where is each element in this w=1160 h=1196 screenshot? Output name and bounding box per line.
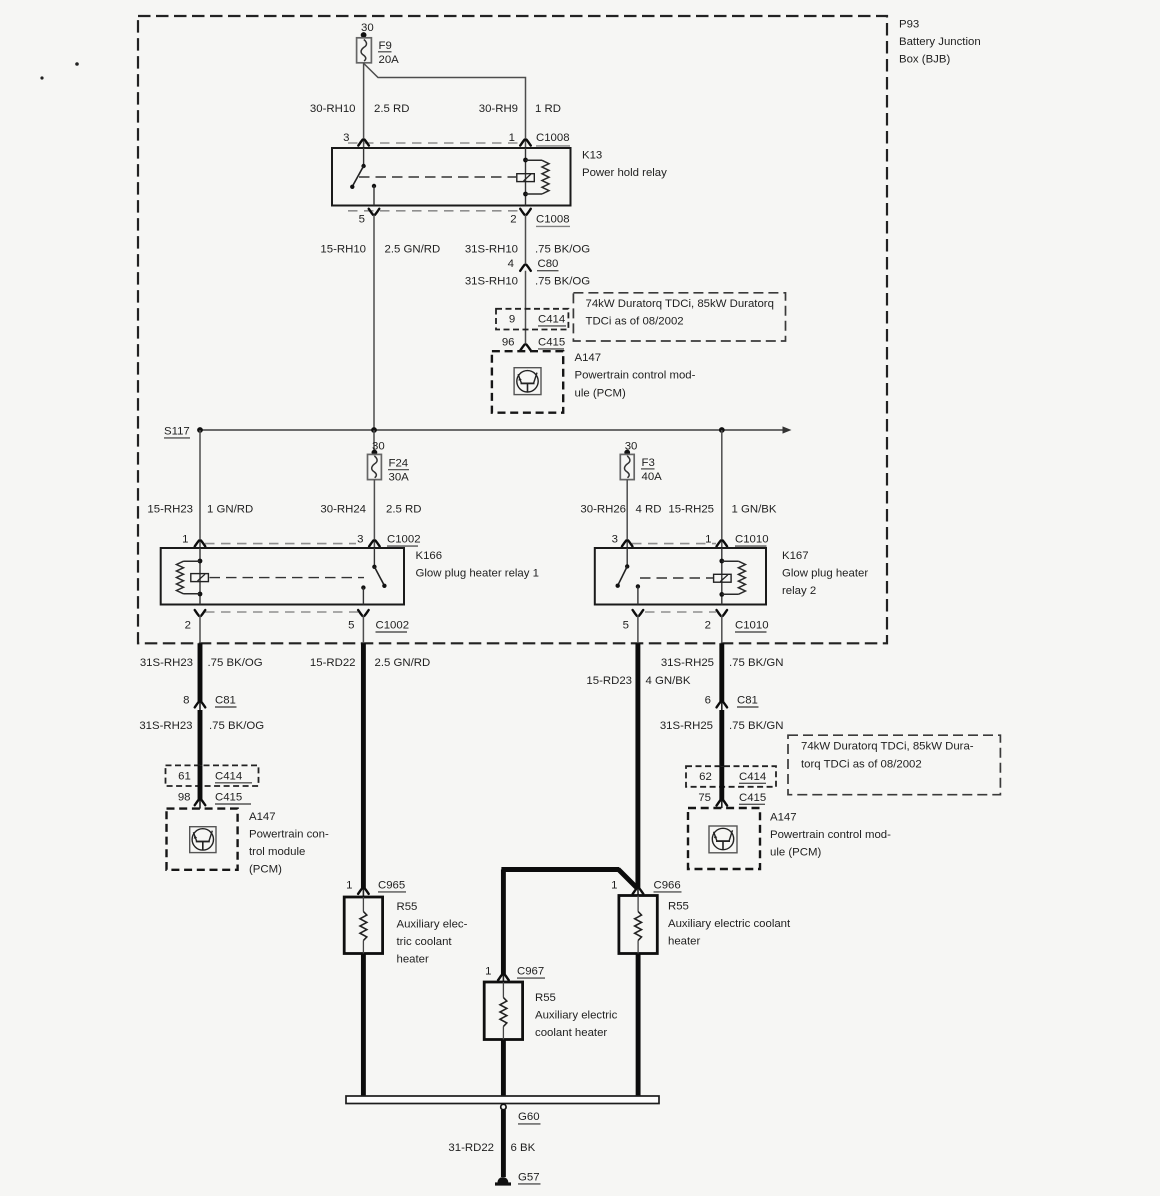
K167 coil element box	[714, 574, 732, 582]
module A147 PCM box (right, dashed)	[688, 808, 760, 869]
Battery Junction Box P93 boundary (dashed)	[138, 16, 887, 643]
pin 3 connector symbol (K166)	[369, 541, 380, 547]
connector C1010 bottom label	[735, 620, 769, 632]
connector C965 label	[378, 879, 406, 892]
K166 coil element box	[191, 574, 209, 582]
svg-text:.75 BK/GN: .75 BK/GN	[729, 657, 783, 669]
svg-text:(PCM): (PCM)	[249, 864, 282, 876]
svg-text:Powertrain control mod-: Powertrain control mod-	[770, 829, 891, 841]
wire C966 to ground bar	[636, 954, 641, 1097]
svg-text:1: 1	[485, 966, 491, 978]
svg-text:C1002: C1002	[387, 534, 421, 546]
pin 9 label (C414)	[509, 314, 515, 326]
pin 6 label (C81 right)	[705, 695, 711, 707]
connector C414 box left (pin 61)	[166, 765, 259, 786]
svg-text:.75 BK/OG: .75 BK/OG	[208, 657, 263, 669]
connector C81 symbol (left)	[195, 702, 206, 708]
connector C967 label	[517, 966, 545, 979]
svg-text:1: 1	[705, 534, 711, 546]
pin 1 connector symbol (K13)	[520, 140, 531, 146]
node 30 terminal dot (F24)	[372, 450, 378, 456]
svg-text:6 BK: 6 BK	[511, 1142, 536, 1154]
svg-text:30-RH9: 30-RH9	[479, 103, 518, 115]
svg-text:C1010: C1010	[735, 620, 769, 632]
svg-text:C967: C967	[517, 966, 544, 978]
svg-text:2.5 GN/RD: 2.5 GN/RD	[375, 657, 431, 669]
wire F9 to K13 pin3 (30-RH10 2.5 RD)	[363, 63, 365, 148]
relay K167 name label	[782, 550, 868, 597]
svg-text:5: 5	[348, 620, 354, 632]
svg-text:Glow plug heater relay 1: Glow plug heater relay 1	[416, 567, 539, 579]
svg-text:C414: C414	[538, 314, 565, 326]
svg-text:2.5 RD: 2.5 RD	[386, 503, 421, 515]
svg-text:5: 5	[359, 214, 365, 226]
node 30 label (F3)	[625, 441, 638, 453]
ground G60 label	[518, 1111, 541, 1124]
fuse F9	[357, 38, 372, 63]
svg-text:A147: A147	[770, 812, 797, 824]
connector C1010 bottom dashed line	[645, 611, 716, 613]
wire label 15-RH25 1 GN/BK	[668, 503, 776, 515]
wire 31S-RH23 .75 BK/OG (K166 pin2 to C81)	[198, 643, 203, 710]
connector C414 label	[538, 314, 566, 326]
wire label 31S-RH25 .75 BK/GN	[661, 657, 784, 669]
svg-text:TDCi as of 08/2002: TDCi as of 08/2002	[586, 316, 684, 328]
wire K167 pin2 stub	[721, 615, 723, 643]
K167 coil winding zigzag	[722, 561, 746, 594]
svg-text:Powertrain control mod-: Powertrain control mod-	[575, 370, 696, 382]
wire label 31S-RH23 .75 BK/OG	[140, 657, 263, 669]
pin 3 label (K13)	[343, 132, 349, 144]
svg-text:5: 5	[623, 620, 629, 632]
wire through C414 right	[719, 766, 724, 808]
ground G60 terminal circle	[501, 1104, 506, 1109]
svg-text:3: 3	[343, 132, 349, 144]
svg-text:ule (PCM): ule (PCM)	[575, 387, 626, 399]
svg-text:.75 BK/OG: .75 BK/OG	[209, 720, 264, 732]
K13 coil wire pin1-pin2	[525, 148, 527, 206]
pin 1 label (C965)	[346, 879, 352, 891]
svg-text:relay 2: relay 2	[782, 585, 816, 597]
svg-text:15-RH23: 15-RH23	[147, 503, 193, 515]
label A147 PCM (right)	[770, 812, 891, 859]
pin 5 connector symbol (K13)	[369, 209, 380, 215]
svg-text:1: 1	[509, 132, 515, 144]
svg-text:K166: K166	[416, 550, 443, 562]
heater R55 element (C965)	[360, 897, 367, 954]
pin 2 connector symbol (K13)	[520, 209, 531, 215]
connector C81 label (right)	[737, 695, 759, 707]
svg-text:75: 75	[698, 792, 711, 804]
svg-text:K167: K167	[782, 550, 809, 562]
wire label 30-RH24 2.5 RD	[320, 503, 421, 515]
svg-text:.75 BK/OG: .75 BK/OG	[535, 243, 590, 255]
K167 switch pin3 stub	[626, 548, 628, 566]
relay K13 box	[332, 148, 571, 206]
svg-text:torq TDCi as of 08/2002: torq TDCi as of 08/2002	[801, 758, 922, 770]
module A147 PCM box (left, dashed)	[167, 809, 238, 870]
wire C80 to C414 (31S-RH10)	[525, 271, 527, 344]
splice S117 bus wire	[200, 429, 785, 431]
connector C81 label (left)	[215, 695, 237, 707]
wire label 15-RH10 2.5 GN/RD	[320, 243, 440, 255]
K13 coil winding zigzag	[526, 160, 550, 194]
svg-text:R55: R55	[397, 901, 418, 913]
svg-text:40A: 40A	[642, 471, 663, 483]
K166 coil winding zigzag	[177, 561, 201, 594]
wire label 31S-RH10 .75 BK/OG upper	[465, 243, 590, 255]
pin 1 label (K166)	[182, 534, 188, 546]
svg-text:1: 1	[346, 879, 352, 891]
fuse F3 value label 40A	[641, 457, 662, 483]
svg-text:31S-RH10: 31S-RH10	[465, 275, 518, 287]
connector C80 symbol	[520, 265, 531, 271]
svg-text:31S-RH25: 31S-RH25	[661, 657, 714, 669]
svg-text:31-RD22: 31-RD22	[448, 1142, 494, 1154]
wire 31S-RH25 .75 BK/GN (K167 pin2 to C81)	[719, 643, 724, 710]
wire K166 pin5 stub	[362, 615, 364, 643]
connector C415 symbol (left)	[195, 799, 206, 805]
relay K166 box	[161, 548, 404, 605]
connector C415 symbol (right)	[717, 800, 728, 806]
wire K167 pin5 stub	[637, 615, 639, 643]
svg-text:9: 9	[509, 314, 515, 326]
K13 coil bottom junction dot	[523, 192, 528, 197]
K166 pin5 internal stub	[362, 588, 364, 605]
node 30 label (F9 feed)	[361, 22, 374, 34]
svg-text:C80: C80	[538, 258, 559, 270]
svg-text:30-RH26: 30-RH26	[580, 503, 626, 515]
connector C415 symbol	[520, 345, 531, 351]
pin 75 label (C415 right)	[698, 792, 711, 804]
svg-text:trol module: trol module	[249, 846, 305, 858]
fuse F24 value label 30A	[388, 458, 409, 484]
connector C414 box right (pin 62)	[686, 766, 776, 787]
pin 2 label (K166)	[185, 620, 191, 632]
wire label 31S-RH10 .75 BK/OG lower	[465, 275, 590, 287]
connector C1002 top label	[387, 534, 421, 547]
svg-text:3: 3	[357, 534, 363, 546]
pin 2 label (K167)	[705, 620, 711, 632]
K167 coil bottom junction dot	[719, 592, 724, 597]
svg-text:15-RD22: 15-RD22	[310, 657, 356, 669]
svg-text:4: 4	[508, 258, 514, 270]
wire 15-RD22 2.5 GN/RD (K166 pin5 to C965)	[361, 643, 366, 897]
wire through C414 left	[198, 765, 203, 808]
connector C965 symbol	[358, 888, 369, 894]
connector C414 label (right)	[739, 771, 766, 783]
connector C1010 top label	[735, 534, 769, 547]
label A147 PCM (left)	[249, 811, 329, 876]
note 74kW Duratorq box (top)	[573, 293, 785, 341]
svg-text:31S-RH10: 31S-RH10	[465, 243, 518, 255]
svg-text:coolant heater: coolant heater	[535, 1027, 607, 1039]
note text 74kW Duratorq (bottom)	[801, 740, 974, 770]
wire branch F9 to K13 pin1 (30-RH9 1 RD)	[364, 64, 526, 149]
svg-text:Auxiliary electric: Auxiliary electric	[535, 1010, 618, 1022]
pin 8 label (C81 left)	[183, 695, 189, 707]
svg-text:R55: R55	[668, 901, 689, 913]
svg-text:C415: C415	[739, 792, 766, 804]
connector C966 symbol	[633, 888, 644, 894]
svg-text:G57: G57	[518, 1171, 540, 1183]
K166 coil top junction dot	[198, 559, 203, 564]
connector C1002 top dashed line	[205, 543, 356, 545]
K166 actuation dashed link	[210, 577, 365, 579]
relay K13 name label	[582, 150, 667, 180]
module A147 PCM box (middle, dashed)	[492, 351, 563, 413]
connector C1008 top dashed line	[348, 142, 521, 144]
K167 coil wire pin1-pin2	[721, 548, 723, 605]
svg-text:A147: A147	[575, 352, 602, 364]
wire branch diagonal into C966 pin1	[618, 869, 637, 888]
K13 switch blade	[352, 166, 363, 187]
svg-text:8: 8	[183, 695, 189, 707]
wire label 30-RH10 2.5 RD	[310, 103, 410, 115]
heater R55 element (C967)	[500, 982, 507, 1040]
pin 2 connector symbol (K167)	[717, 610, 728, 616]
wire S117 to K166 pin1 (15-RH23 1 GN/RD)	[199, 430, 201, 548]
svg-text:74kW Duratorq TDCi, 85kW Durat: 74kW Duratorq TDCi, 85kW Duratorq	[586, 298, 774, 310]
svg-text:C1008: C1008	[536, 132, 570, 144]
relay K166 name label	[416, 550, 539, 580]
svg-text:Battery Junction: Battery Junction	[899, 36, 981, 48]
K166 coil wire pin1-pin2	[199, 548, 201, 605]
svg-text:K13: K13	[582, 150, 602, 162]
K167 switch blade end dot	[616, 584, 620, 588]
connector C414 label (left)	[215, 771, 252, 783]
svg-text:1: 1	[611, 879, 617, 891]
connector C1010 top dashed line	[632, 543, 716, 545]
pin 98 label (C415 left)	[178, 792, 191, 804]
connector C967 symbol	[498, 974, 509, 980]
wire label 15-RH23 1 GN/RD	[147, 503, 253, 515]
wire G60 to G57 (31-RD22 6 BK)	[501, 1110, 506, 1177]
svg-text:C415: C415	[215, 792, 242, 804]
pin 1 label (K13)	[509, 132, 515, 144]
connector C415 label (left)	[215, 792, 251, 804]
svg-text:C966: C966	[654, 879, 681, 891]
svg-text:C81: C81	[215, 695, 236, 707]
connector C415 label	[538, 336, 565, 349]
K13 pin5 internal stub	[373, 186, 375, 206]
svg-text:4 GN/BK: 4 GN/BK	[646, 675, 691, 687]
wire label 30-RH26 4 RD	[580, 503, 661, 515]
pin 3 label (K166)	[357, 534, 363, 546]
svg-text:61: 61	[178, 771, 191, 783]
connector C1002 bottom dashed line	[205, 611, 358, 613]
svg-text:C1010: C1010	[735, 534, 769, 546]
heater R55 box (C967)	[484, 982, 522, 1040]
svg-text:96: 96	[502, 336, 515, 348]
pin 1 label (K167)	[705, 534, 711, 546]
connector C415 label (right)	[739, 792, 766, 804]
K13 switch pin3 stub	[363, 148, 365, 166]
pin 3 connector symbol (K167)	[622, 541, 633, 547]
K166 switch blade	[374, 567, 384, 586]
pin 5 connector symbol (K166)	[358, 610, 369, 616]
K13 switch blade end dot	[350, 185, 354, 189]
wire F24 to K166 pin3 (30-RH24 2.5 RD)	[373, 480, 375, 548]
svg-text:Auxiliary electric coolant: Auxiliary electric coolant	[668, 918, 791, 930]
relay K167 box	[595, 548, 766, 605]
heater R55 box (C965)	[344, 897, 382, 954]
pin 5 label (K13)	[359, 214, 365, 226]
svg-text:F24: F24	[389, 458, 409, 470]
heater R55 box (C966)	[619, 896, 657, 954]
pin 2 label (K13)	[510, 214, 516, 226]
svg-text:C414: C414	[739, 771, 766, 783]
K166 switch pin3 stub	[373, 548, 375, 567]
svg-text:Glow plug heater: Glow plug heater	[782, 567, 868, 579]
connector C414 box (PCM, pin 9)	[496, 309, 568, 330]
wire K13 pin2 to C80 (31S-RH10)	[525, 215, 527, 265]
pin 1 connector symbol (K166)	[195, 541, 206, 547]
fuse F3	[620, 454, 634, 479]
svg-text:2: 2	[185, 620, 191, 632]
K166 switch pivot dot	[372, 565, 376, 569]
wire S117 to F24	[373, 430, 375, 452]
PCM symbol (left)	[190, 827, 216, 853]
svg-text:R55: R55	[535, 992, 556, 1004]
K13 switch pivot dot	[361, 164, 365, 168]
wire branch to C967 (horizontal)	[501, 867, 619, 872]
wire F3 to K167 pin3 (30-RH26 4 RD)	[626, 480, 628, 548]
K167 switch pivot dot	[625, 564, 629, 568]
svg-text:ule (PCM): ule (PCM)	[770, 847, 821, 859]
S117 junction dot at F24 drop	[371, 427, 377, 433]
connector C1008 bottom label	[536, 214, 570, 227]
svg-text:74kW Duratorq TDCi, 85kW Dura-: 74kW Duratorq TDCi, 85kW Dura-	[801, 740, 974, 752]
pin 4 label (C80)	[508, 258, 514, 270]
svg-text:15-RH10: 15-RH10	[320, 243, 366, 255]
pin 3 label (K167)	[612, 534, 618, 546]
svg-text:62: 62	[699, 771, 712, 783]
pin 61 label (C414 left)	[178, 771, 191, 783]
connector C1008 bottom dashed line	[348, 210, 521, 212]
svg-text:F3: F3	[642, 457, 655, 469]
K167 switch blade	[618, 566, 627, 585]
svg-text:2: 2	[510, 214, 516, 226]
svg-text:31S-RH25: 31S-RH25	[660, 720, 713, 732]
pin 5 label (K166)	[348, 620, 354, 632]
svg-text:3: 3	[612, 534, 618, 546]
svg-text:P93: P93	[899, 18, 919, 30]
K13 switch fixed contact dot	[372, 184, 376, 188]
svg-text:C1002: C1002	[376, 620, 410, 632]
connector C1008 top label	[536, 132, 570, 146]
pin 1 label (C967)	[485, 966, 491, 978]
svg-text:2: 2	[705, 620, 711, 632]
wire label 31-RD22 6 BK	[448, 1142, 535, 1154]
svg-text:30-RH10: 30-RH10	[310, 103, 356, 115]
pin 96 label (C415)	[502, 336, 515, 348]
svg-text:4 RD: 4 RD	[636, 503, 662, 515]
K166 switch blade end dot	[382, 584, 386, 588]
wire C81 to C414 left (31S-RH23)	[198, 710, 203, 765]
node 30 label (F24)	[372, 441, 385, 453]
svg-text:C414: C414	[215, 771, 242, 783]
label R55 Auxiliary electric coolant heater (C966)	[668, 901, 791, 948]
K166 coil bottom junction dot	[198, 592, 203, 597]
ground bus bar G60	[346, 1096, 659, 1104]
svg-text:Power hold relay: Power hold relay	[582, 167, 667, 179]
wire label 31S-RH25 .75 BK/GN lower	[660, 720, 784, 732]
label R55 Auxiliary electric coolant heater (C967)	[535, 992, 618, 1039]
svg-text:15-RD23: 15-RD23	[586, 675, 632, 687]
wire C81 to C414 right (31S-RH25)	[719, 710, 724, 766]
K167 switch fixed contact dot	[636, 584, 640, 588]
svg-text:20A: 20A	[379, 54, 400, 66]
svg-text:1 GN/BK: 1 GN/BK	[732, 503, 777, 515]
wire K166 pin2 stub	[199, 615, 201, 643]
svg-text:tric coolant: tric coolant	[397, 936, 453, 948]
connector C966 label	[654, 879, 682, 892]
node 30 terminal dot (F9)	[361, 32, 367, 38]
connector C81 symbol (right)	[717, 702, 728, 708]
K13 coil top junction dot	[523, 158, 528, 163]
node 30 terminal dot (F3)	[624, 450, 630, 456]
K166 switch fixed contact dot	[361, 585, 365, 589]
PCM symbol (middle)	[514, 368, 541, 395]
svg-text:1: 1	[182, 534, 188, 546]
svg-text:2.5 RD: 2.5 RD	[374, 103, 409, 115]
K167 actuation dashed link	[640, 577, 713, 579]
K167 pin5 internal stub	[637, 586, 639, 604]
svg-text:C415: C415	[538, 336, 565, 348]
wire 15-RD23 4 GN/BK (K167 pin5 to C966)	[635, 643, 640, 895]
svg-text:6: 6	[705, 695, 711, 707]
K13 coil element box	[517, 174, 535, 182]
pin 5 connector symbol (K167)	[633, 610, 644, 616]
speck artifacts	[40, 62, 78, 79]
ground G57 symbol	[495, 1177, 511, 1184]
svg-text:Powertrain con-: Powertrain con-	[249, 829, 329, 841]
pin 62 label (C414 right)	[699, 771, 712, 783]
svg-text:98: 98	[178, 792, 191, 804]
ground G57 label	[518, 1171, 541, 1184]
heater R55 element (C966)	[635, 896, 642, 954]
connector C1002 bottom label	[376, 620, 410, 632]
wire label 30-RH9 1 RD	[479, 103, 561, 115]
pin 1 label (C966)	[611, 879, 617, 891]
S117 bus arrowhead	[783, 426, 792, 433]
connector C80 label	[537, 258, 559, 271]
wire C965 to ground bar	[361, 954, 366, 1097]
svg-text:.75 BK/OG: .75 BK/OG	[535, 275, 590, 287]
note 74kW Duratorq box (bottom)	[788, 735, 1000, 795]
svg-text:.75 BK/GN: .75 BK/GN	[729, 720, 783, 732]
svg-text:C965: C965	[378, 879, 405, 891]
fuse F24	[368, 454, 382, 479]
svg-text:30-RH24: 30-RH24	[320, 503, 366, 515]
wire label 31S-RH23 .75 BK/OG lower	[139, 720, 264, 732]
S117 junction dot at K167 drop	[719, 427, 725, 433]
note text 74kW Duratorq (top)	[586, 298, 774, 328]
pin 1 connector symbol (K167)	[717, 541, 728, 547]
svg-text:Box (BJB): Box (BJB)	[899, 53, 950, 65]
svg-text:heater: heater	[397, 954, 430, 966]
label P93 Battery Junction Box	[899, 18, 981, 65]
svg-text:A147: A147	[249, 811, 276, 823]
pin 5 label (K167)	[623, 620, 629, 632]
svg-text:G60: G60	[518, 1111, 540, 1123]
svg-text:1 GN/RD: 1 GN/RD	[207, 503, 253, 515]
svg-text:C81: C81	[737, 695, 758, 707]
svg-text:1 RD: 1 RD	[535, 103, 561, 115]
wire C967 to ground bar	[501, 1040, 506, 1097]
svg-text:F9: F9	[379, 40, 392, 52]
